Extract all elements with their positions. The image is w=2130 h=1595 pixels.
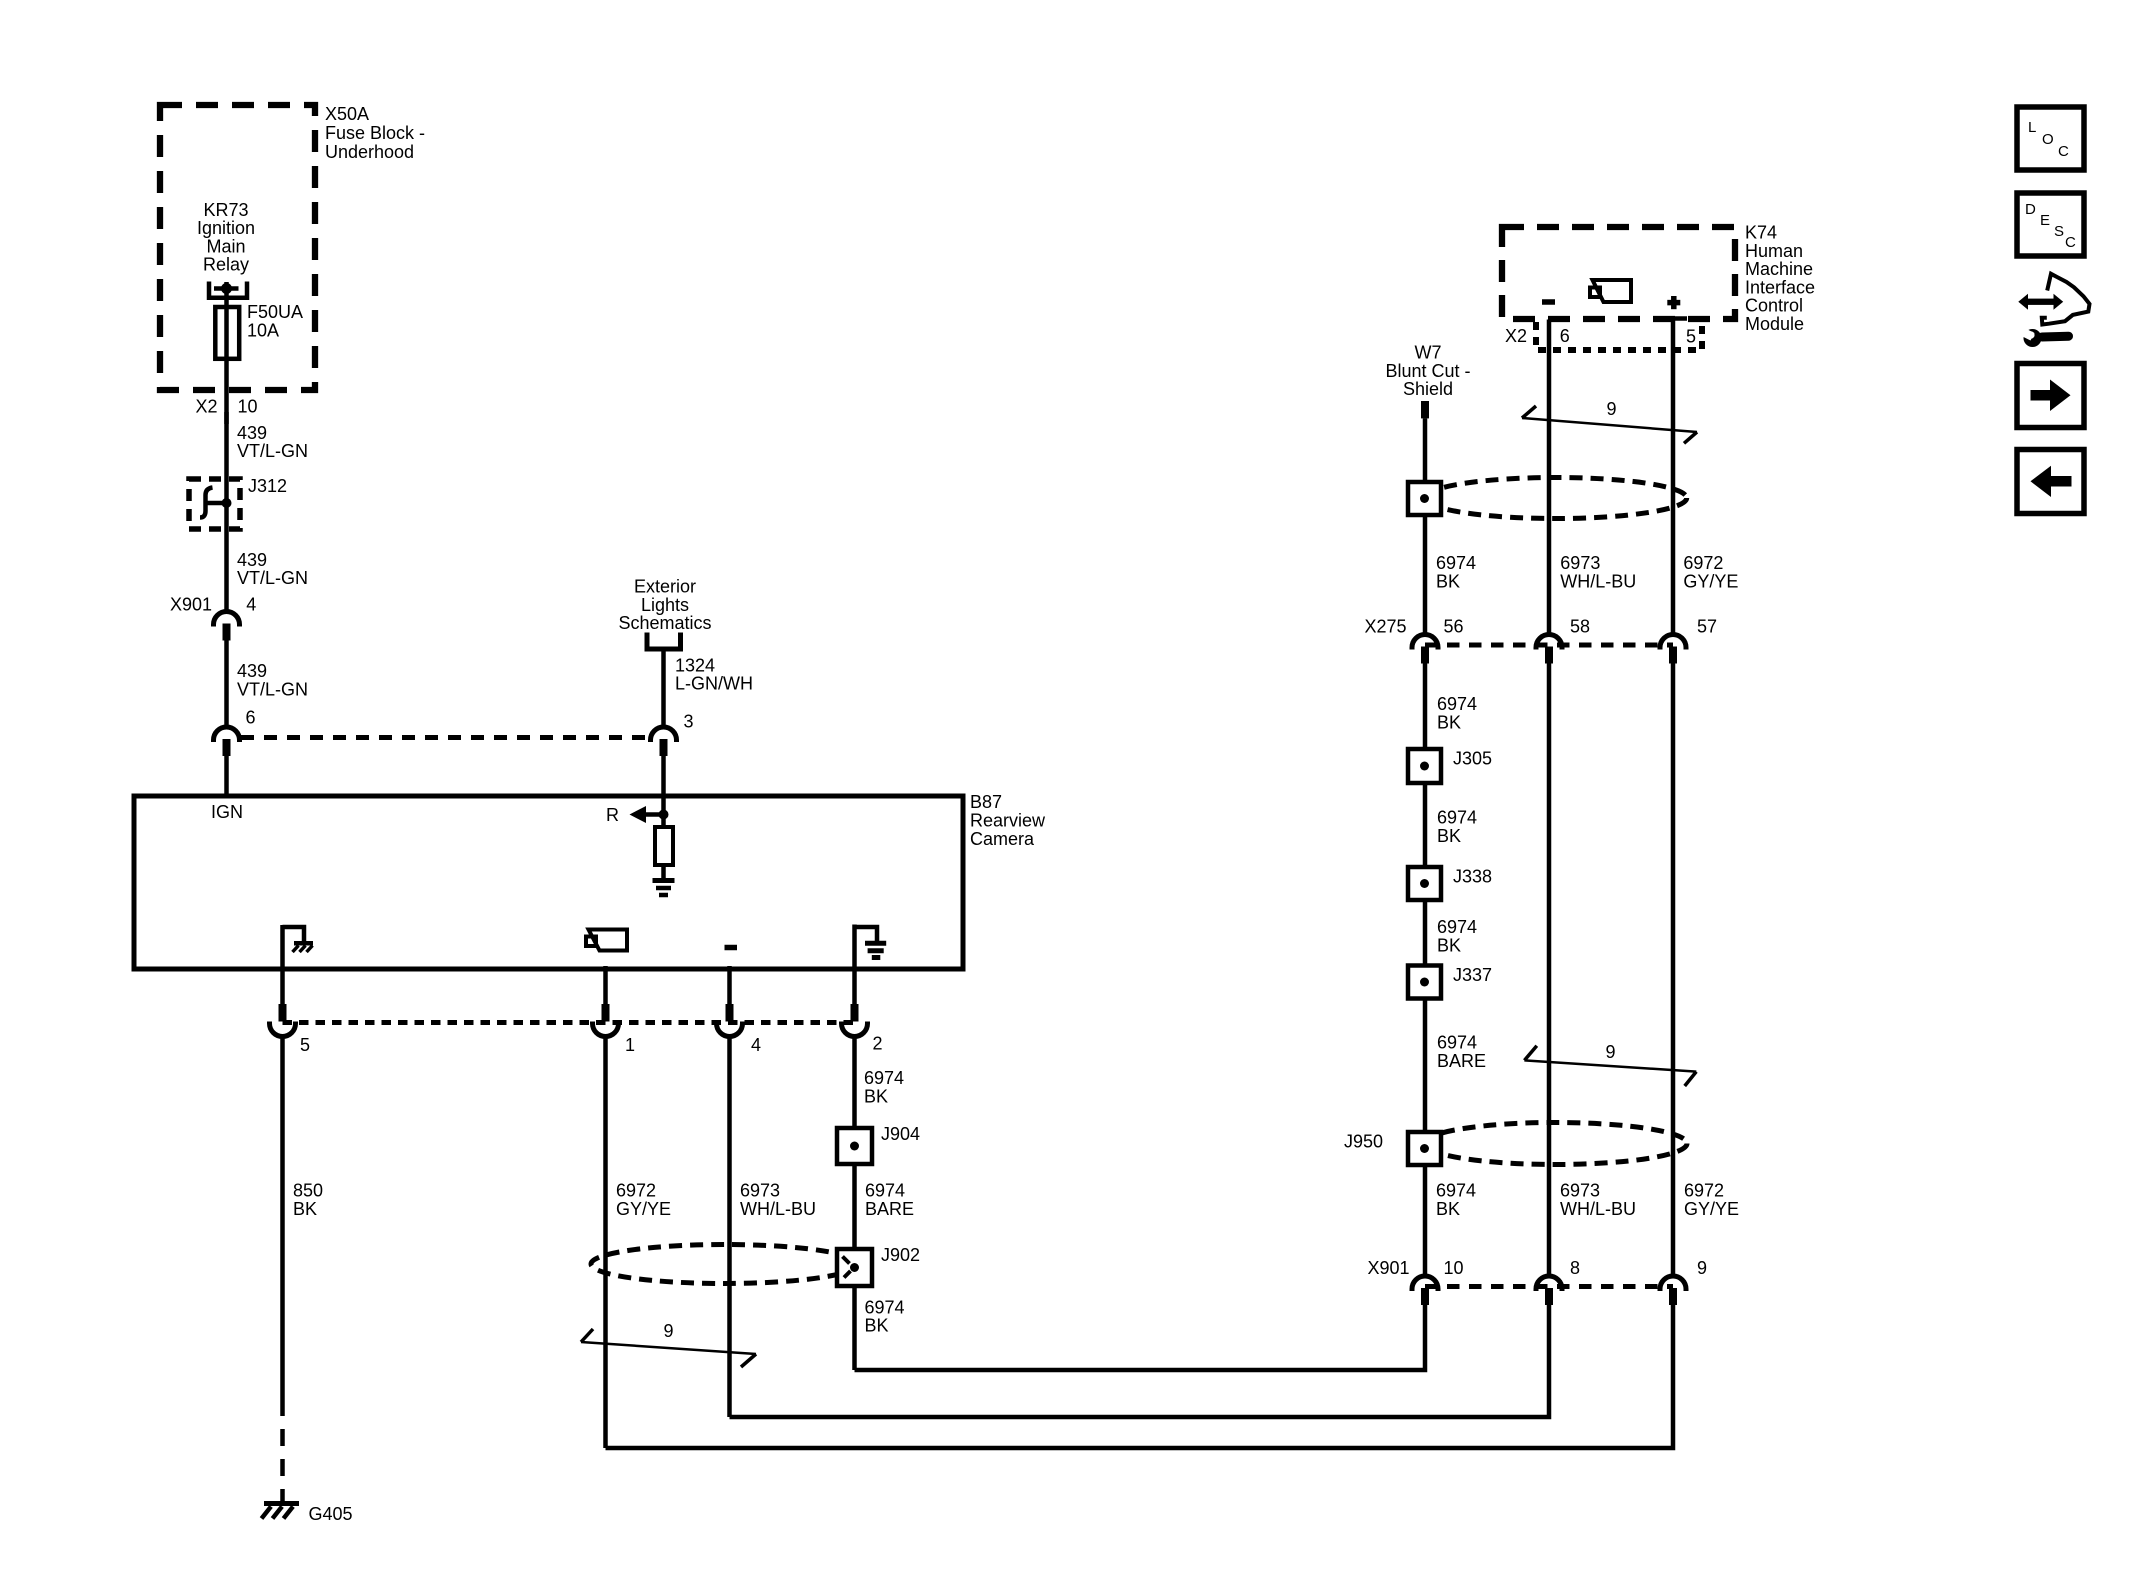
svg-text:J312: J312 bbox=[248, 476, 287, 496]
svg-text:BK: BK bbox=[1437, 712, 1461, 732]
svg-text:1: 1 bbox=[625, 1035, 635, 1055]
splice J902 bbox=[837, 1249, 872, 1286]
svg-text:BK: BK bbox=[864, 1086, 888, 1106]
svg-text:X901: X901 bbox=[170, 594, 212, 614]
svg-text:57: 57 bbox=[1697, 616, 1717, 636]
svg-text:6974: 6974 bbox=[865, 1297, 905, 1317]
plus pin K74 bbox=[1667, 300, 1680, 306]
svg-text:6973: 6973 bbox=[740, 1181, 780, 1201]
svg-text:E: E bbox=[2040, 212, 2050, 229]
camera icon internal bbox=[586, 937, 596, 947]
fuse block X50A dashed box bbox=[160, 105, 315, 390]
svg-text:W7: W7 bbox=[1415, 343, 1442, 363]
svg-text:58: 58 bbox=[1570, 616, 1590, 636]
svg-text:X2: X2 bbox=[1505, 326, 1527, 346]
connector X275 pin 57 symbol bbox=[1660, 635, 1686, 650]
svg-text:1324: 1324 bbox=[675, 655, 715, 675]
svg-text:9: 9 bbox=[1697, 1258, 1707, 1278]
svg-text:4: 4 bbox=[246, 594, 256, 614]
wire pin 2 through box bottom bbox=[852, 925, 857, 1005]
shield ellipse at J902 bbox=[591, 1245, 858, 1284]
svg-text:GY/YE: GY/YE bbox=[616, 1199, 671, 1219]
svg-text:6974: 6974 bbox=[864, 1068, 904, 1088]
svg-text:6972: 6972 bbox=[1683, 553, 1723, 573]
svg-text:BK: BK bbox=[1437, 935, 1461, 955]
icon arrow left box bbox=[2017, 450, 2084, 514]
svg-text:R: R bbox=[606, 805, 619, 825]
wire J950 to X901.10 bbox=[1423, 1165, 1428, 1276]
svg-text:BK: BK bbox=[865, 1316, 889, 1336]
connector pin 2 symbol bbox=[851, 1004, 859, 1022]
wire pin 5 through box bottom bbox=[280, 925, 285, 1004]
rearview camera B87 box bbox=[134, 796, 963, 969]
wire fuse to X2 pin 10 bbox=[224, 359, 229, 424]
splice J950 bbox=[1408, 1132, 1441, 1165]
svg-text:6974: 6974 bbox=[865, 1181, 905, 1201]
wire box top to R node bbox=[661, 796, 666, 827]
svg-text:IGN: IGN bbox=[211, 802, 243, 822]
svg-text:L: L bbox=[2028, 119, 2036, 136]
pin 5 tab bbox=[1673, 316, 1687, 321]
svg-text:Rearview: Rearview bbox=[970, 810, 1046, 830]
svg-text:X50A: X50A bbox=[325, 104, 369, 124]
svg-text:Camera: Camera bbox=[970, 829, 1035, 849]
svg-text:5: 5 bbox=[300, 1035, 310, 1055]
svg-text:6973: 6973 bbox=[1560, 553, 1600, 573]
svg-text:GY/YE: GY/YE bbox=[1684, 1199, 1739, 1219]
svg-text:439: 439 bbox=[237, 550, 267, 570]
ICONS COLUMN bbox=[2017, 107, 2090, 514]
wire J338 to J337 bbox=[1423, 900, 1428, 966]
splice J337 bbox=[1408, 966, 1441, 999]
dashed harness line pin6 to pin3 bbox=[241, 735, 650, 740]
icon DESC box bbox=[2017, 193, 2084, 256]
svg-text:B87: B87 bbox=[970, 792, 1002, 812]
svg-text:J950: J950 bbox=[1344, 1132, 1383, 1152]
svg-text:5: 5 bbox=[1686, 327, 1696, 347]
svg-text:KR73: KR73 bbox=[203, 200, 248, 220]
svg-text:WH/L-BU: WH/L-BU bbox=[1560, 1199, 1636, 1219]
svg-text:10A: 10A bbox=[247, 320, 279, 340]
wire J904 to J902 bbox=[852, 1164, 857, 1249]
svg-text:BARE: BARE bbox=[865, 1199, 914, 1219]
svg-text:Control: Control bbox=[1745, 296, 1803, 316]
wire pin 6 to B87 box bbox=[224, 756, 229, 796]
wire bracket to pin 3 bbox=[661, 649, 666, 727]
HMI control module K74 dashed box bbox=[1502, 227, 1735, 319]
wire 6973 WH/L-BU bottom run to X901.8 bbox=[730, 1305, 1550, 1417]
svg-text:Ignition: Ignition bbox=[197, 218, 255, 238]
svg-text:J337: J337 bbox=[1453, 965, 1492, 985]
svg-text:BK: BK bbox=[1436, 571, 1460, 591]
connector X901 pin 10 symbol bbox=[1412, 1276, 1438, 1291]
wire J902 down bbox=[852, 1286, 857, 1370]
svg-text:VT/L-GN: VT/L-GN bbox=[237, 441, 308, 461]
BOTTOM LEFT SECTION bbox=[262, 1036, 1674, 1525]
svg-text:6974: 6974 bbox=[1436, 553, 1476, 573]
svg-text:BK: BK bbox=[1436, 1199, 1460, 1219]
ground hook pin 5 internal bbox=[283, 927, 305, 941]
svg-text:X901: X901 bbox=[1368, 1258, 1410, 1278]
svg-text:6973: 6973 bbox=[1560, 1181, 1600, 1201]
splice J305 bbox=[1408, 749, 1441, 783]
svg-text:Human: Human bbox=[1745, 241, 1803, 261]
svg-text:9: 9 bbox=[1607, 399, 1617, 419]
svg-text:Interface: Interface bbox=[1745, 277, 1815, 297]
svg-text:4: 4 bbox=[751, 1035, 761, 1055]
connector pin 3 symbol bbox=[651, 727, 677, 742]
svg-text:BK: BK bbox=[293, 1199, 317, 1219]
svg-text:S: S bbox=[2054, 223, 2064, 240]
svg-text:VT/L-GN: VT/L-GN bbox=[237, 680, 308, 700]
svg-text:F50UA: F50UA bbox=[247, 302, 303, 322]
resistor internal bbox=[655, 827, 673, 865]
svg-text:Module: Module bbox=[1745, 314, 1804, 334]
minus pin K74 bbox=[1542, 299, 1555, 305]
wire J312 to X901 pin 4 bbox=[224, 503, 229, 612]
off-page connector bracket bbox=[647, 633, 681, 650]
wire shield box to X275.56 bbox=[1423, 515, 1428, 634]
svg-text:C: C bbox=[2065, 234, 2076, 251]
svg-text:BK: BK bbox=[1437, 826, 1461, 846]
shield ellipse at J950 bbox=[1424, 1123, 1687, 1165]
svg-text:L-GN/WH: L-GN/WH bbox=[675, 673, 753, 693]
shield ellipse (top) bbox=[1425, 478, 1687, 519]
ground symbol pin 2 internal bbox=[855, 927, 878, 941]
svg-text:X275: X275 bbox=[1365, 616, 1407, 636]
dashed wire to G405 bbox=[280, 1416, 285, 1502]
connector row below B87: dashed line bbox=[283, 1020, 855, 1025]
wire J305 to J338 bbox=[1423, 783, 1428, 867]
wire 6972 GY/YE pin1 down bbox=[603, 1036, 608, 1449]
svg-text:C: C bbox=[2058, 143, 2069, 160]
connector X275 pin 58 symbol bbox=[1536, 635, 1562, 650]
blunt cut W7 terminal bbox=[1421, 401, 1429, 418]
svg-text:J904: J904 bbox=[881, 1124, 920, 1144]
svg-text:9: 9 bbox=[664, 1321, 674, 1341]
svg-text:G405: G405 bbox=[309, 1504, 353, 1524]
twisted pair symbol 9 (middle) bbox=[1524, 1046, 1536, 1061]
wire pin 4 to box bottom bbox=[727, 966, 732, 1004]
svg-text:Fuse Block -: Fuse Block - bbox=[325, 123, 425, 143]
svg-text:6974: 6974 bbox=[1437, 808, 1477, 828]
svg-text:6974: 6974 bbox=[1436, 1181, 1476, 1201]
splice J338 bbox=[1408, 867, 1441, 900]
connector pin 5 symbol bbox=[279, 1004, 287, 1022]
wire pin 3 to B87 box bbox=[661, 756, 666, 796]
wire 6974 BK pin2 to J904 bbox=[852, 1036, 857, 1129]
wire X901.4 to B87 pin 6 bbox=[224, 641, 229, 727]
shield connection box W7 bbox=[1408, 482, 1441, 515]
wire 6974 BK bottom run to X901.10 bbox=[855, 1305, 1426, 1370]
svg-text:Shield: Shield bbox=[1403, 379, 1453, 399]
svg-text:Main: Main bbox=[206, 236, 245, 256]
connector X901 pin 8 symbol bbox=[1536, 1276, 1562, 1291]
svg-text:Schematics: Schematics bbox=[618, 613, 711, 633]
connector X901 pin 4 symbol bbox=[214, 612, 240, 627]
svg-text:6972: 6972 bbox=[1684, 1181, 1724, 1201]
connector X275 dashed line bbox=[1425, 643, 1673, 648]
connector X2 dotted box bbox=[1536, 322, 1702, 350]
wire K74.5 continuation X275.57 to X901.9 bbox=[1671, 664, 1676, 1277]
wire K74.6 continuation X275.58 to X901.8 bbox=[1547, 664, 1552, 1277]
svg-text:WH/L-BU: WH/L-BU bbox=[1560, 571, 1636, 591]
svg-text:6: 6 bbox=[1560, 326, 1570, 346]
svg-text:Machine: Machine bbox=[1745, 259, 1813, 279]
connector X901 dashed line bbox=[1425, 1284, 1673, 1289]
svg-text:6974: 6974 bbox=[1437, 1033, 1477, 1053]
svg-text:56: 56 bbox=[1444, 616, 1464, 636]
wire J337 to J950 bbox=[1423, 999, 1428, 1133]
B87 SECTION bbox=[134, 792, 1046, 1055]
splice J904 bbox=[837, 1128, 872, 1164]
svg-text:8: 8 bbox=[1570, 1258, 1580, 1278]
splice J312 symbol bbox=[200, 488, 213, 518]
svg-text:Relay: Relay bbox=[203, 255, 249, 275]
wire K74 pin 5 down to X275.57 bbox=[1671, 319, 1676, 635]
wire K74 pin 6 down to X275.58 bbox=[1547, 320, 1552, 635]
svg-text:WH/L-BU: WH/L-BU bbox=[740, 1199, 816, 1219]
camera icon K74 bbox=[1590, 288, 1600, 298]
connector pin 1 symbol bbox=[602, 1004, 610, 1022]
icon LOC box bbox=[2017, 107, 2084, 170]
wire X275.56 to J305 bbox=[1423, 664, 1428, 750]
svg-text:Underhood: Underhood bbox=[325, 142, 414, 162]
wire 850 BK pin5 down bbox=[280, 1036, 285, 1417]
RIGHT SECTION bbox=[1344, 223, 1815, 1306]
svg-text:Lights: Lights bbox=[641, 595, 689, 615]
svg-text:J305: J305 bbox=[1453, 748, 1492, 768]
svg-text:439: 439 bbox=[237, 661, 267, 681]
svg-text:2: 2 bbox=[873, 1034, 883, 1054]
svg-text:10: 10 bbox=[238, 396, 258, 416]
connector X275 pin 56 symbol bbox=[1412, 635, 1438, 650]
connector pin 6 symbol bbox=[214, 727, 240, 742]
pin 6 tab bbox=[1549, 317, 1569, 322]
svg-text:850: 850 bbox=[293, 1181, 323, 1201]
svg-text:GY/YE: GY/YE bbox=[1683, 571, 1738, 591]
wire 6972 GY/YE bottom run to X901.9 bbox=[606, 1305, 1674, 1448]
twisted pair symbol 9 (top) bbox=[1522, 406, 1536, 418]
twisted pair symbol 9 (bottom) bbox=[581, 1329, 593, 1342]
svg-text:3: 3 bbox=[684, 712, 694, 732]
wire X2.10 to J312 bbox=[224, 412, 229, 503]
svg-text:O: O bbox=[2042, 131, 2054, 148]
minus sign pin 4 internal bbox=[725, 945, 738, 951]
svg-text:9: 9 bbox=[1606, 1042, 1616, 1062]
svg-text:BARE: BARE bbox=[1437, 1051, 1486, 1071]
svg-text:10: 10 bbox=[1444, 1258, 1464, 1278]
wire 6973 WH/L-BU pin4 down bbox=[727, 1036, 732, 1418]
svg-text:439: 439 bbox=[237, 423, 267, 443]
wire W7 to shield box bbox=[1423, 418, 1428, 482]
connector X901 pin 9 symbol bbox=[1660, 1276, 1686, 1291]
svg-text:Blunt Cut -: Blunt Cut - bbox=[1385, 361, 1470, 381]
svg-text:6: 6 bbox=[246, 707, 256, 727]
icon repair (double arrow, panel outline, wrench) bbox=[2042, 274, 2090, 325]
svg-text:6974: 6974 bbox=[1437, 917, 1477, 937]
ground internal (R branch) bbox=[653, 878, 675, 883]
connector pin 4 symbol bbox=[726, 1004, 734, 1022]
svg-text:D: D bbox=[2025, 201, 2036, 218]
svg-text:J902: J902 bbox=[881, 1245, 920, 1265]
svg-text:X2: X2 bbox=[196, 396, 218, 416]
wire relay to fuse bbox=[224, 282, 229, 307]
ground G405 bbox=[264, 1501, 299, 1506]
svg-text:VT/L-GN: VT/L-GN bbox=[237, 568, 308, 588]
LEFT SECTION bbox=[160, 104, 753, 796]
fuse F50UA bbox=[215, 307, 239, 359]
splice J312 dashed box bbox=[189, 479, 240, 529]
wire pin 1 to box bottom bbox=[603, 966, 608, 1004]
svg-text:6974: 6974 bbox=[1437, 694, 1477, 714]
icon arrow right box bbox=[2017, 364, 2084, 428]
svg-text:6972: 6972 bbox=[616, 1181, 656, 1201]
svg-text:K74: K74 bbox=[1745, 223, 1777, 243]
relay KR73 contact symbol bbox=[209, 282, 247, 298]
wire resistor to ground bbox=[661, 865, 666, 879]
svg-text:Exterior: Exterior bbox=[634, 577, 696, 597]
svg-text:J338: J338 bbox=[1453, 867, 1492, 887]
